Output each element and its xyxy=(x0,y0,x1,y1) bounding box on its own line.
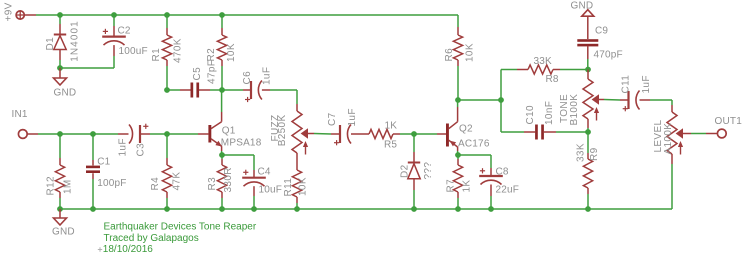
wire fuzz-r11 xyxy=(296,153,298,170)
supply +9V terminal xyxy=(16,11,24,19)
capacitor C2 xyxy=(102,29,126,45)
label 10K r6 xyxy=(465,43,476,62)
label 1K r5 xyxy=(385,121,398,132)
resistor R8 xyxy=(528,65,553,74)
node rail R7 xyxy=(455,206,461,212)
label R8 xyxy=(546,74,559,85)
label 1uF c6 xyxy=(262,67,273,85)
svg-text:33K: 33K xyxy=(575,143,586,162)
node Q2 collector xyxy=(455,97,461,103)
wire gnd stub xyxy=(59,68,61,78)
node rail R3 xyxy=(219,206,225,212)
label 1uF c7 xyxy=(347,108,358,126)
label C4 xyxy=(258,167,271,178)
svg-text:+9V: +9V xyxy=(3,2,14,21)
wire in lead xyxy=(27,133,38,135)
wire level bottom xyxy=(671,154,673,209)
label R11 xyxy=(283,178,294,197)
wire C3 lead left xyxy=(118,133,129,135)
svg-text:22uF: 22uF xyxy=(496,185,520,196)
label C5 xyxy=(192,67,203,81)
node base R4 xyxy=(164,131,170,137)
node C2 top xyxy=(111,12,117,18)
wire gnd link xyxy=(60,67,114,69)
label GND top xyxy=(571,1,594,12)
svg-text:R11: R11 xyxy=(283,178,294,197)
svg-text:R2: R2 xyxy=(206,48,217,62)
label 10uF xyxy=(259,185,283,196)
wire ground rail xyxy=(60,208,672,210)
wire Q2 base lead xyxy=(437,133,446,135)
wire D1 top xyxy=(59,15,61,35)
wire C2 top xyxy=(113,15,115,37)
node D1 top xyxy=(57,12,63,18)
wire D1 bottom xyxy=(59,50,61,69)
svg-text:10K: 10K xyxy=(465,43,476,62)
label A100K xyxy=(663,123,674,155)
wire C6 left xyxy=(222,89,251,91)
capacitor C8 xyxy=(479,168,503,184)
wire Q1 collector xyxy=(221,90,223,112)
label 1N4001 xyxy=(70,20,81,62)
label 100uF xyxy=(119,46,148,57)
note date xyxy=(103,244,153,255)
ground rail xyxy=(54,218,67,225)
label R5 xyxy=(384,140,397,151)
svg-text:B100K: B100K xyxy=(569,94,580,126)
node Q1 emitter xyxy=(219,152,225,158)
svg-text:47pF: 47pF xyxy=(207,60,218,84)
label R4 xyxy=(150,177,161,191)
svg-text:1uF: 1uF xyxy=(262,67,273,85)
label R7 xyxy=(446,179,457,193)
node R8 tee xyxy=(498,97,504,103)
svg-text:MPSA18: MPSA18 xyxy=(221,138,262,149)
wire R3 top xyxy=(221,155,223,165)
label R2 xyxy=(206,48,217,62)
svg-text:1uF: 1uF xyxy=(347,108,358,126)
label R6 xyxy=(444,48,455,62)
label 470K xyxy=(173,38,184,63)
svg-text:B250K: B250K xyxy=(277,115,288,147)
capacitor C10 xyxy=(535,125,544,140)
node gnd link xyxy=(57,65,63,71)
resistor R1 xyxy=(162,35,171,60)
node rail R9 xyxy=(585,206,591,212)
node R1 top xyxy=(164,12,170,18)
node in R12 xyxy=(57,131,63,137)
wire gnd stub bottom xyxy=(59,209,61,218)
connector OUT1 xyxy=(717,129,726,138)
svg-text:47K: 47K xyxy=(171,172,182,191)
svg-text:???: ??? xyxy=(423,162,434,180)
wire C8 link xyxy=(458,155,491,176)
wire C5 left xyxy=(167,89,191,91)
label 10nF xyxy=(544,101,555,125)
svg-text:R8: R8 xyxy=(546,74,559,85)
wire Q1 emitter xyxy=(221,151,223,155)
resistor R5 xyxy=(369,129,393,138)
wire R4 bottom xyxy=(166,192,168,209)
wire R6 bottom xyxy=(457,60,459,100)
wire R1 top xyxy=(166,15,168,35)
svg-text:C5: C5 xyxy=(192,67,203,81)
svg-text:C8: C8 xyxy=(496,167,509,178)
wire C6 right xyxy=(262,89,297,91)
wire R8 right xyxy=(553,69,588,71)
node rail R4 xyxy=(164,206,170,212)
label OUT1 xyxy=(715,116,743,127)
svg-text:C10: C10 xyxy=(525,105,536,124)
node tone top xyxy=(585,67,591,73)
svg-text:1N4001: 1N4001 xyxy=(70,20,81,62)
wire R6 lead xyxy=(457,27,459,35)
wire C7 lead xyxy=(331,133,340,135)
label R1 xyxy=(151,48,162,62)
svg-text:R3: R3 xyxy=(207,177,218,191)
svg-text:D2: D2 xyxy=(400,164,411,178)
diode D1 xyxy=(54,35,66,50)
resistor R2 xyxy=(217,35,226,60)
label R3 xyxy=(207,177,218,191)
label C3 xyxy=(135,143,146,157)
transistor Q2 AC176 xyxy=(446,107,458,151)
svg-text:470K: 470K xyxy=(173,38,184,63)
label D1 xyxy=(45,37,56,51)
svg-text:D1: D1 xyxy=(45,37,56,51)
label AC176 xyxy=(458,139,490,150)
wire Q1 base lead xyxy=(198,133,208,135)
label D2 xyxy=(400,164,411,178)
resistor R11 xyxy=(292,170,301,197)
svg-text:C9: C9 xyxy=(595,26,608,37)
svg-text:1M: 1M xyxy=(62,179,73,194)
svg-text:470pF: 470pF xyxy=(594,50,623,61)
wire R8 riser xyxy=(501,70,528,101)
label LEVEL xyxy=(653,120,664,153)
label 470pF xyxy=(594,50,623,61)
capacitor C4 xyxy=(242,170,266,187)
node rail R11 xyxy=(294,206,300,212)
resistor R12 xyxy=(55,165,64,192)
label 100pF xyxy=(97,178,126,189)
wire wiper lead xyxy=(308,133,332,136)
svg-text:10K: 10K xyxy=(298,177,309,196)
note traced-by xyxy=(104,233,199,244)
svg-text:AC176: AC176 xyxy=(458,139,490,150)
note title xyxy=(104,222,257,233)
node rail gnd xyxy=(57,206,63,212)
svg-text:A100K: A100K xyxy=(663,123,674,155)
svg-text:C4: C4 xyxy=(258,167,271,178)
svg-text:C6: C6 xyxy=(242,71,253,85)
label C1 xyxy=(97,156,110,167)
wire C4 link xyxy=(222,155,254,178)
svg-text:Earthquaker Devices Tone Reape: Earthquaker Devices Tone Reaper xyxy=(104,222,257,233)
svg-text:R6: R6 xyxy=(444,48,455,62)
wire C1 bottom xyxy=(92,173,94,209)
svg-text:10uF: 10uF xyxy=(259,185,283,196)
wire tone wiper lead xyxy=(599,99,621,102)
wire C11 lead xyxy=(620,99,629,101)
node rail C4 xyxy=(251,206,257,212)
wire input net xyxy=(38,133,118,135)
svg-text:Traced by Galapagos: Traced by Galapagos xyxy=(104,233,199,244)
capacitor C5 xyxy=(191,83,200,98)
label 33K r9 xyxy=(575,143,586,162)
wire +9V lead xyxy=(25,14,37,16)
svg-text:Q2: Q2 xyxy=(459,124,473,135)
transistor Q1 MPSA18 xyxy=(208,112,222,151)
label C6 xyxy=(242,71,253,85)
node D2 top xyxy=(411,131,417,137)
wire C10 right xyxy=(544,131,588,133)
svg-text:GND: GND xyxy=(54,88,77,99)
svg-text:GND: GND xyxy=(571,1,594,12)
wire C8 bottom xyxy=(490,185,492,210)
svg-text:R1: R1 xyxy=(151,48,162,62)
label R9 xyxy=(589,147,600,161)
label FUZZ xyxy=(270,115,281,142)
svg-text:1uF: 1uF xyxy=(117,138,128,156)
ground D1/C2 xyxy=(54,78,67,85)
ground C9 xyxy=(582,10,594,17)
label C11 xyxy=(621,75,632,94)
label GND left-top xyxy=(54,88,77,99)
wire tone bottom xyxy=(587,119,589,132)
wire D2 top xyxy=(413,134,415,163)
diode D2 xyxy=(408,163,420,179)
node R2 top xyxy=(219,12,225,18)
capacitor C7 xyxy=(334,125,351,146)
wire R11 bottom xyxy=(296,197,298,209)
wire R2 top xyxy=(221,15,223,35)
label C2 xyxy=(118,26,131,37)
svg-text:330R: 330R xyxy=(223,167,234,192)
svg-text:C7: C7 xyxy=(327,112,338,126)
wire C11 right xyxy=(640,100,673,112)
wire D2 bottom xyxy=(413,179,415,209)
label R12 xyxy=(46,176,57,195)
wire fuzz top xyxy=(296,90,298,111)
svg-text:C11: C11 xyxy=(621,75,632,94)
resistor R7 xyxy=(453,165,462,192)
label +9V xyxy=(3,2,14,21)
node tone bottom xyxy=(585,129,591,135)
label C9 xyxy=(595,26,608,37)
label 10K r11 xyxy=(298,177,309,196)
wire R12 top xyxy=(59,134,61,165)
wire top rail drop xyxy=(457,15,459,27)
svg-text:18/10/2016: 18/10/2016 xyxy=(103,244,153,255)
wire R3 bottom xyxy=(221,192,223,209)
wire C4 bottom xyxy=(253,186,255,209)
origin cross xyxy=(98,247,102,251)
svg-text:R12: R12 xyxy=(46,176,57,195)
wire R5 right xyxy=(393,133,437,135)
svg-text:10K: 10K xyxy=(226,43,237,62)
wire Q2 collector xyxy=(457,100,459,107)
label B250K xyxy=(277,115,288,147)
potentiometer TONE B100K xyxy=(583,79,599,121)
svg-text:OUT1: OUT1 xyxy=(715,116,743,127)
label GND bottom xyxy=(52,227,75,238)
label 22uF xyxy=(496,185,520,196)
resistor R9 xyxy=(583,159,592,188)
wire R7 top xyxy=(457,155,459,165)
svg-text:GND: GND xyxy=(52,227,75,238)
label MPSA18 xyxy=(221,138,262,149)
wire R2 bottom xyxy=(221,60,223,90)
wire tone top lead xyxy=(587,70,589,80)
node Q2 emitter xyxy=(455,152,461,158)
svg-text:R4: R4 xyxy=(150,177,161,191)
wire top rail xyxy=(36,14,458,16)
svg-text:R5: R5 xyxy=(384,140,397,151)
capacitor C3 xyxy=(129,124,148,144)
label C7 xyxy=(327,112,338,126)
wire Q2 emitter xyxy=(457,151,459,155)
node C5 left xyxy=(164,87,170,93)
node in C1 xyxy=(90,131,96,137)
wire C10 riser xyxy=(501,100,535,132)
capacitor C6 xyxy=(245,81,262,103)
wire C9 bottom xyxy=(587,46,589,69)
wire R1 bottom xyxy=(166,60,168,90)
label B100K xyxy=(569,94,580,126)
label TONE xyxy=(559,94,570,123)
label 1uF c3 xyxy=(117,138,128,156)
svg-text:100uF: 100uF xyxy=(119,46,148,57)
svg-text:IN1: IN1 xyxy=(12,109,28,120)
node rail C8 xyxy=(488,206,494,212)
svg-text:Q1: Q1 xyxy=(222,126,236,137)
label 33K r8 xyxy=(534,56,553,67)
label 47pF xyxy=(207,60,218,84)
resistor R6 xyxy=(453,35,462,60)
svg-text:1K: 1K xyxy=(385,121,398,132)
connector IN1 xyxy=(18,130,27,139)
label 1M xyxy=(62,179,73,194)
wire out wiper lead xyxy=(683,133,718,135)
wire R9 bottom xyxy=(587,188,589,209)
label 10K r2 xyxy=(226,43,237,62)
capacitor C11 xyxy=(623,91,640,112)
label IN1 xyxy=(12,109,28,120)
svg-text:R9: R9 xyxy=(589,147,600,161)
wire R4 top xyxy=(166,134,168,165)
svg-text:100pF: 100pF xyxy=(97,178,126,189)
svg-text:33K: 33K xyxy=(534,56,553,67)
potentiometer FUZZ B250K xyxy=(292,111,308,155)
svg-text:R7: R7 xyxy=(446,179,457,193)
wire R9 top xyxy=(587,132,589,159)
label C8 xyxy=(496,167,509,178)
potentiometer LEVEL A100K xyxy=(667,112,683,155)
wire C9 top xyxy=(587,16,589,39)
wire R12 bottom xyxy=(59,192,61,209)
label Q2 xyxy=(459,124,473,135)
label Q1 xyxy=(222,126,236,137)
label 1K r7 xyxy=(462,180,473,193)
svg-text:1uF: 1uF xyxy=(641,75,652,93)
svg-text:C1: C1 xyxy=(97,156,110,167)
wire C3 right xyxy=(140,133,198,135)
wire C5 right xyxy=(199,89,222,91)
wire R7 bottom xyxy=(457,192,459,209)
label 47K xyxy=(171,172,182,191)
svg-text:1K: 1K xyxy=(462,180,473,193)
wire C1 top xyxy=(92,134,94,165)
svg-text:C2: C2 xyxy=(118,26,131,37)
capacitor C1 xyxy=(86,166,100,173)
label ??? d2 xyxy=(423,162,434,180)
svg-text:10nF: 10nF xyxy=(544,101,555,125)
node C5 right xyxy=(219,87,225,93)
wire collector net xyxy=(458,99,501,101)
resistor R4 xyxy=(162,165,171,192)
node rail D2 xyxy=(411,206,417,212)
wire C2 bottom xyxy=(113,45,115,68)
capacitor C9 xyxy=(577,39,598,46)
node rail C1 xyxy=(90,206,96,212)
label C10 xyxy=(525,105,536,124)
label 1uF c11 xyxy=(641,75,652,93)
wire C7-R5 xyxy=(351,133,369,135)
svg-text:C3: C3 xyxy=(135,143,146,157)
label 330R xyxy=(223,167,234,192)
resistor R3 xyxy=(217,165,226,192)
